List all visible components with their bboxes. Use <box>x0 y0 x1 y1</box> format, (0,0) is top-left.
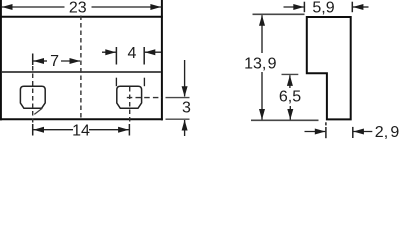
dimension 4: right arrowhead pointing left <box>145 49 156 55</box>
diagonal mark at left hole bottom-right <box>34 108 42 114</box>
dimension 23: left arrowhead <box>2 4 13 10</box>
dimension 4: left line with arrow <box>102 51 116 53</box>
dimension 4: left arrowhead pointing right <box>105 49 116 55</box>
dimension 7: left arrowhead <box>33 58 44 64</box>
dimension 7: line left segment with arrow <box>33 60 47 62</box>
dimension 4: left extension stub above hole <box>115 78 117 87</box>
svg-text:14: 14 <box>72 122 90 139</box>
dimension 4: right extension stub above hole <box>143 78 145 87</box>
dimension 3: up arrow below <box>184 120 186 136</box>
front view outline: right edge (with extension up for 23 dim) <box>161 0 163 120</box>
step edge line across front view <box>2 71 161 73</box>
dimension 5,9: right bar <box>351 2 353 13</box>
dimension 14: left bar <box>32 124 34 136</box>
dimension 5,9: right line with arrow pointing left <box>353 6 369 8</box>
dimension 3: upper reference line (centerline extension) <box>166 97 190 99</box>
dimension 2,9: right extension bar <box>352 127 354 138</box>
dimension 3: lower reference line (bottom edge extension) <box>166 118 190 120</box>
svg-text:5,9: 5,9 <box>312 0 334 17</box>
dimension 23: line left segment <box>2 6 65 8</box>
svg-text:7: 7 <box>50 53 59 70</box>
right hole horizontal centerline (dashed, extends right for dim 3) <box>127 97 162 99</box>
front view outline: top edge <box>0 16 163 18</box>
dimension 13,9: up arrow <box>261 15 263 53</box>
left hole centerline (dashed vertical) <box>32 66 34 123</box>
dimension 6,5: down arrow <box>289 106 291 120</box>
front view outline: bottom edge <box>0 118 163 120</box>
dimension 7: line right segment with arrow <box>61 60 80 62</box>
side view L-profile outline <box>307 17 351 119</box>
svg-text:3: 3 <box>182 99 191 116</box>
dimension 6,5: up arrow <box>289 75 291 88</box>
dimension 23: line right segment <box>92 6 162 8</box>
dimension 7: extension bar at hole centerline <box>32 54 34 66</box>
dimension 13,9: upper reference line <box>253 13 305 15</box>
dimension 2,9: left line with arrow pointing right <box>305 131 326 133</box>
dimension 14: right arrowhead <box>118 127 129 133</box>
dimension 14: left arrowhead <box>33 127 44 133</box>
svg-text:2,9: 2,9 <box>375 124 400 139</box>
svg-text:4: 4 <box>128 45 137 62</box>
dimension 2,9: left extension bar (step corner extended down) <box>325 122 327 125</box>
vertical centerline of part (dashed) <box>80 16 82 121</box>
dimension 23: right arrowhead <box>150 4 161 10</box>
right hole <box>117 86 142 108</box>
front view outline: left edge (with extension up for 23 dim) <box>0 0 2 120</box>
dimension 5,9: left line with arrow pointing right <box>284 6 304 8</box>
dimension 4: right line with arrow <box>145 51 161 53</box>
dimension 14: line right segment <box>89 129 129 131</box>
dimension 6,5: upper reference line <box>282 73 299 75</box>
dimension 14: line left segment <box>33 129 73 131</box>
dimension 2,9: right line with arrow pointing left <box>353 131 372 133</box>
dimension 13,9: down arrow <box>261 72 263 120</box>
dimension 3: down arrow above <box>184 60 186 97</box>
left hole (rounded top corners, chamfered bottom corners) <box>20 86 45 108</box>
dimension 13,9: lower reference line <box>251 119 319 121</box>
svg-text:13,9: 13,9 <box>244 55 276 72</box>
dimension 5,9: left bar <box>303 2 305 13</box>
svg-text:6,5: 6,5 <box>279 89 301 106</box>
right hole vertical centerline (dashed) <box>129 87 131 123</box>
dimension 4: left extension bar <box>115 47 117 65</box>
svg-text:23: 23 <box>69 0 87 16</box>
dimension 14: right bar <box>128 124 130 136</box>
dimension 4: right extension bar <box>143 47 145 65</box>
dimension 7: right arrowhead <box>70 58 81 64</box>
